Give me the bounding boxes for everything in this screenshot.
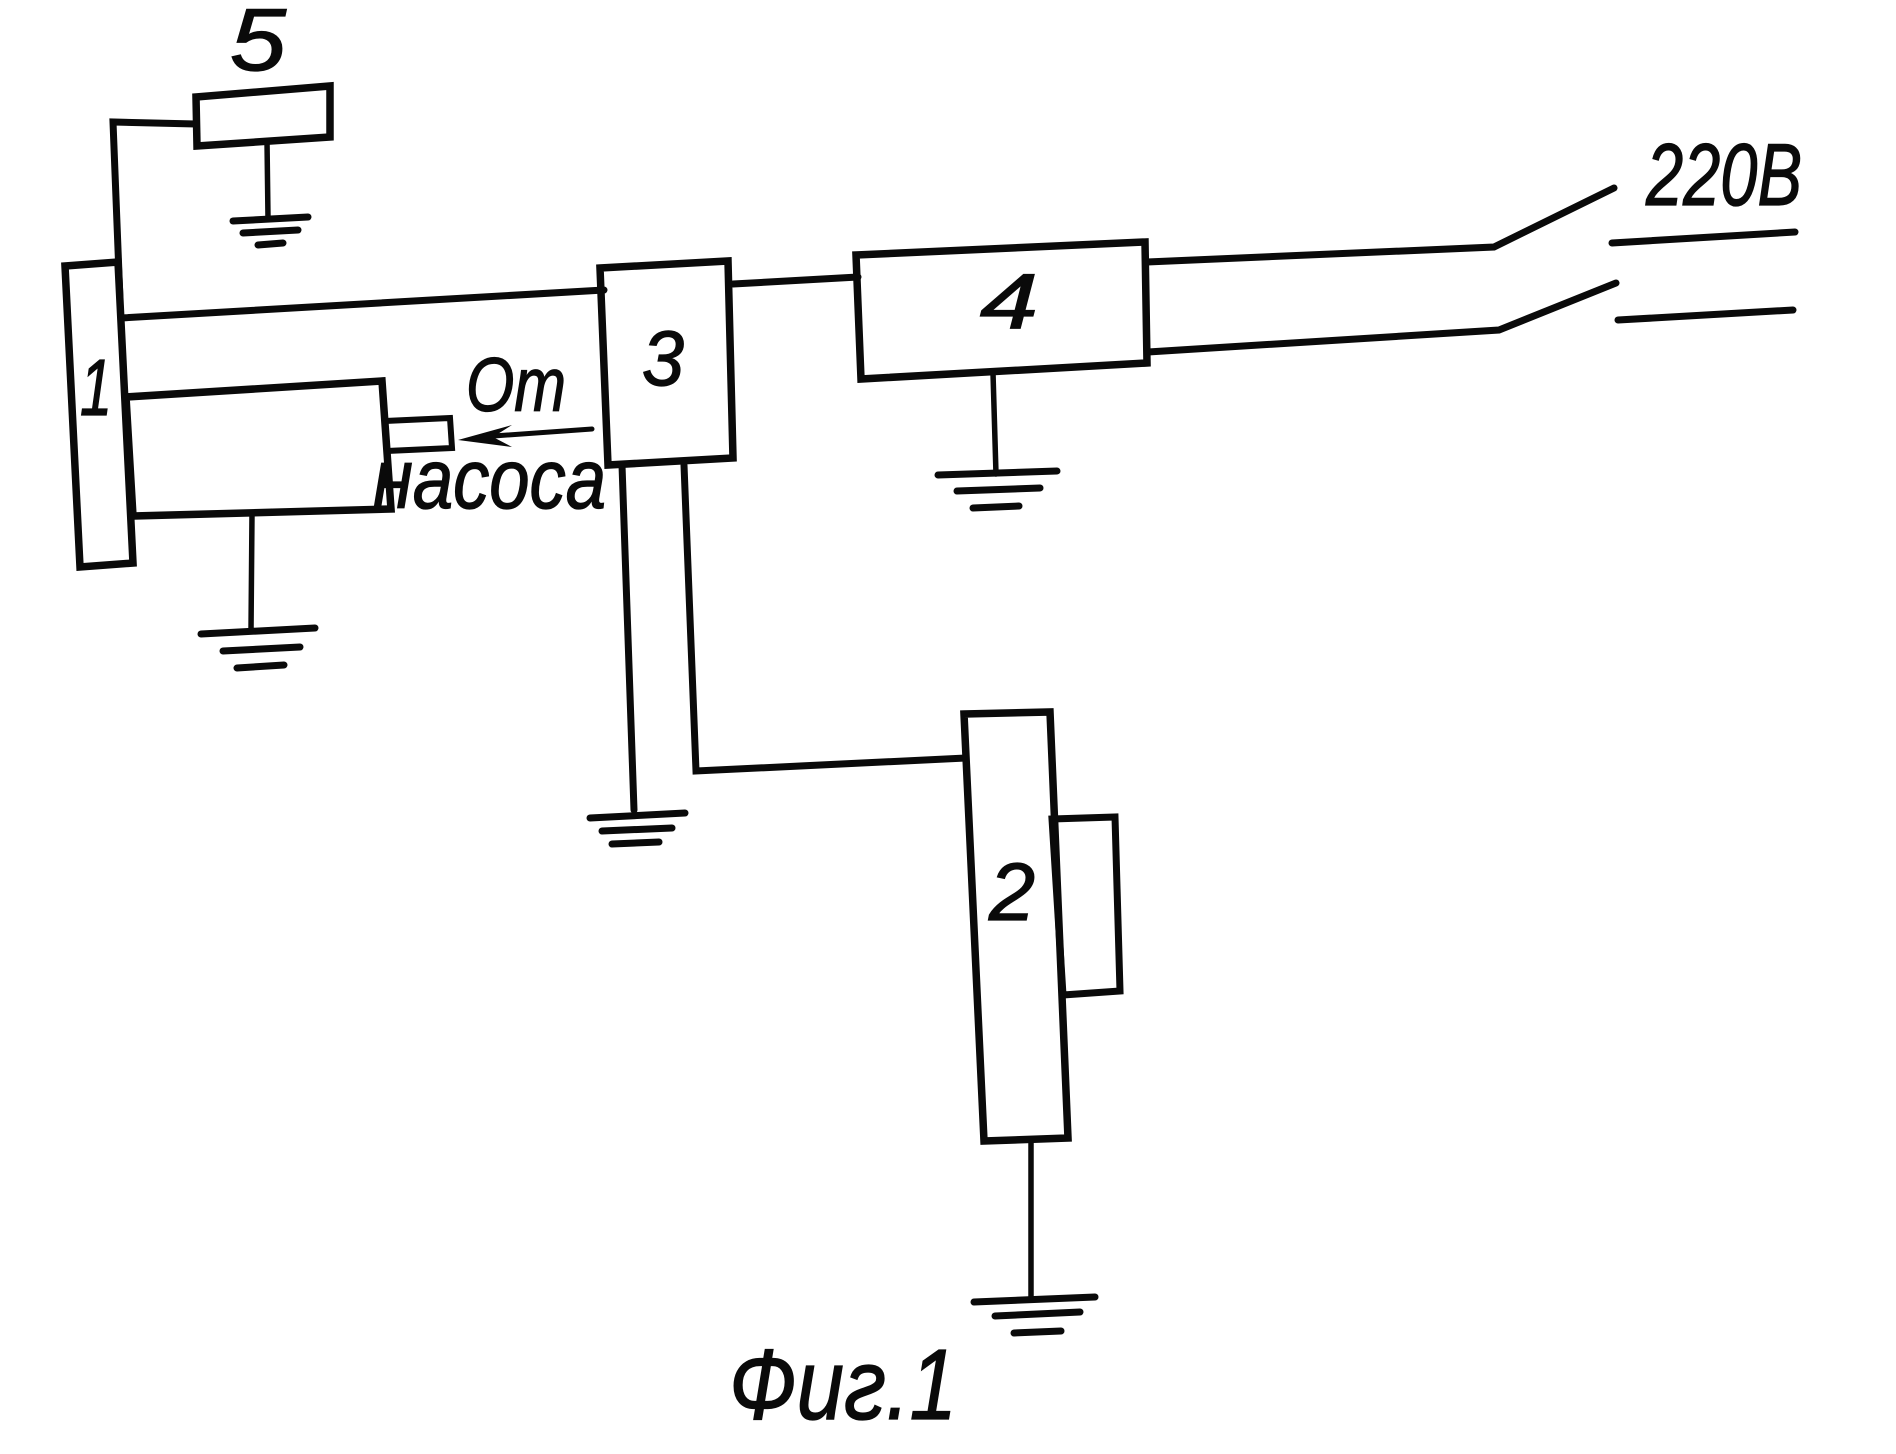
block 4 — [856, 242, 1147, 379]
wire block1 to block3 — [121, 290, 604, 318]
svg-text:3: 3 — [642, 314, 684, 402]
wire block3 to ground — [622, 465, 634, 810]
label 220V — [1645, 125, 1802, 224]
wire 220V bottom terminal — [1618, 310, 1793, 320]
block 1 — [65, 262, 133, 567]
wire block3 to block4 — [733, 277, 858, 284]
svg-text:1: 1 — [80, 343, 112, 432]
label 4 — [980, 257, 1038, 345]
svg-text:220В: 220В — [1645, 125, 1802, 224]
ground under block 2 — [974, 1140, 1095, 1333]
block 3 — [600, 261, 733, 465]
stub on motor — [385, 418, 452, 451]
ground under block 4 — [938, 373, 1057, 508]
stub on block 2 — [1052, 817, 1120, 995]
svg-text:От: От — [466, 343, 566, 428]
wire block3 to block2 — [684, 465, 966, 771]
label 5 — [230, 0, 287, 89]
wire 220V top — [1147, 188, 1614, 262]
wire block5 to block1 — [113, 122, 196, 300]
wire 220V bottom — [1148, 283, 1616, 352]
label 2 — [988, 847, 1035, 938]
label 3 — [642, 314, 684, 402]
svg-text:4: 4 — [980, 257, 1038, 345]
svg-text:5: 5 — [230, 0, 287, 89]
svg-text:2: 2 — [988, 847, 1035, 938]
ground under block 3 — [590, 813, 685, 844]
label 1 — [80, 343, 112, 432]
block 2 — [964, 712, 1068, 1141]
ground under motor — [201, 514, 315, 668]
motor block on block 1 — [126, 381, 391, 516]
caption Fig.1 — [729, 1329, 957, 1441]
svg-text:Фиг.1: Фиг.1 — [729, 1329, 957, 1441]
svg-text:насоса: насоса — [373, 432, 606, 526]
ground under block 5 — [233, 141, 308, 245]
block 5 — [196, 86, 330, 146]
label Ot — [466, 343, 566, 428]
wire 220V top terminal — [1612, 232, 1795, 243]
label nasosa — [373, 432, 606, 526]
arrow from pump — [458, 425, 592, 447]
